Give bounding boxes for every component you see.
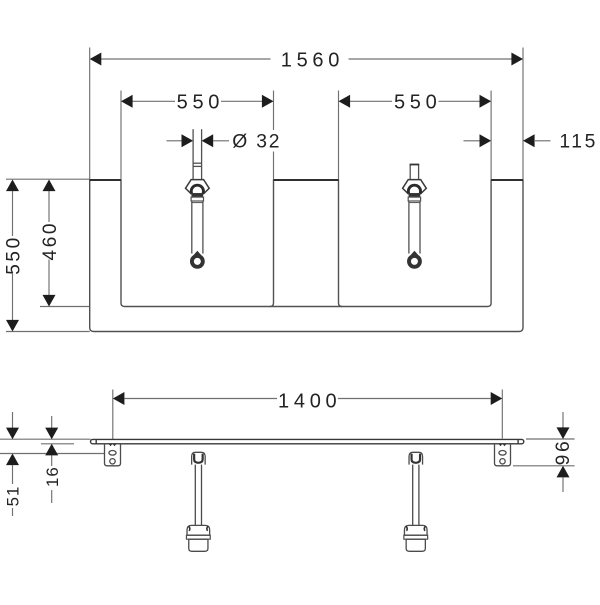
svg-text:550: 550 <box>3 235 24 275</box>
dimension diameter 32 <box>167 140 230 142</box>
dimension 550 right basin <box>350 100 480 102</box>
dimension 1400 <box>124 398 490 400</box>
dimension 96 <box>562 412 564 492</box>
drain 2 pipe stub <box>410 165 420 180</box>
svg-text:1400: 1400 <box>278 390 341 412</box>
svg-text:115: 115 <box>559 132 598 153</box>
dimension 550 depth <box>12 191 14 321</box>
dimension 550 left basin <box>133 100 263 102</box>
drain 1 tailpipe <box>192 201 203 254</box>
wall bracket left <box>105 444 121 466</box>
dimension 460 depth <box>48 191 50 296</box>
svg-text:550: 550 <box>394 92 441 114</box>
svg-text:16: 16 <box>43 466 62 487</box>
svg-text:550: 550 <box>177 92 224 114</box>
trap 1 <box>186 452 210 551</box>
lower view extension lines <box>0 390 575 466</box>
svg-text:51: 51 <box>4 486 23 507</box>
drain 2 tailpipe <box>409 201 420 254</box>
drain 2 flange <box>403 180 427 203</box>
drain 1 pipe <box>193 129 202 180</box>
dimension 1560 <box>101 58 512 60</box>
trap 2 <box>404 452 428 551</box>
svg-text:460: 460 <box>40 221 61 261</box>
console top edges <box>90 179 523 181</box>
wall bracket right <box>495 444 511 466</box>
dimension 115 <box>464 140 551 142</box>
svg-text:Ø 32: Ø 32 <box>232 132 281 153</box>
svg-text:96: 96 <box>553 439 574 466</box>
dimension 16 <box>51 416 53 503</box>
drain 2 outlet ring <box>409 251 420 267</box>
console plate side view <box>91 439 524 443</box>
extension lines top view <box>6 48 523 332</box>
svg-text:1560: 1560 <box>281 49 344 71</box>
dimension 51 <box>12 412 14 516</box>
console outline top view <box>90 180 523 332</box>
drain 1 outlet ring <box>192 251 203 267</box>
drain 1 flange <box>186 180 210 203</box>
